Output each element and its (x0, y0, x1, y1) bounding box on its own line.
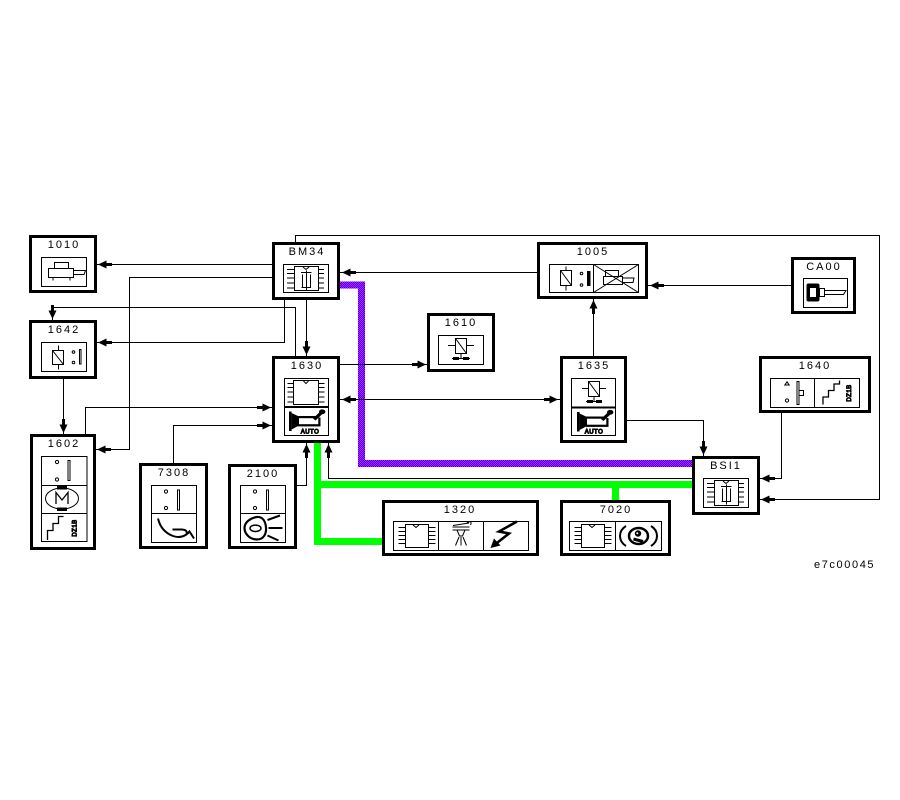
arrow into 1630 bottom right (325, 444, 333, 458)
wire BM34 to 1630 (306, 299, 308, 356)
box 1635 (562, 358, 626, 442)
svg-text:AUTO: AUTO (301, 430, 320, 436)
wire 7308 to 1630 (174, 426, 273, 464)
svg-text:DZ1B: DZ1B (847, 384, 853, 401)
arrow into 1630 bottom left (303, 444, 311, 458)
svg-text:1602: 1602 (48, 438, 80, 450)
svg-text:BSI1: BSI1 (710, 460, 742, 472)
wire BSI1 to 1630 (329, 443, 693, 479)
icon 1005 relay and crossed starter (550, 265, 639, 293)
arrow into 1010 right (98, 261, 112, 269)
green wire drop to 7020 (612, 486, 619, 500)
arrow into BSI1 right lower (761, 496, 775, 504)
wire BM34 to 1602 (96, 278, 272, 450)
wire 1635 to 1005 (593, 299, 595, 356)
arrow into BM34 right (342, 269, 356, 277)
icon CA00 ignition key (804, 279, 848, 308)
icon BSI1 fuse unit (704, 479, 749, 508)
arrow into 1630 top (303, 341, 311, 355)
icon 1320 ecu injection spark (394, 522, 529, 551)
box 1320 (384, 502, 538, 555)
box 1010 (31, 237, 96, 292)
wire 1642 to 1602 (63, 379, 65, 434)
box 7308 (141, 465, 207, 548)
box 1630 (274, 358, 339, 442)
svg-text:DZ1B: DZ1B (73, 519, 79, 536)
svg-text:AUTO: AUTO (585, 430, 604, 436)
green wire bus to BSI1 (314, 481, 692, 488)
icon 1630 ecu and horn (285, 379, 329, 436)
wire 1630 to 1635 bidirectional (340, 399, 560, 401)
wire 1635 to BSI1 top (627, 421, 704, 457)
box 1642 (31, 322, 96, 378)
arrow into 1610 left (412, 361, 426, 369)
arrow into 1005 bottom (590, 300, 598, 314)
wire 1602 to 1630 (86, 408, 273, 435)
wire BM34 to 1642 (97, 299, 285, 343)
icon 1010 starter motor (42, 258, 87, 287)
box 7020 (562, 502, 670, 555)
arrow into 1005 right (650, 282, 664, 290)
box 1610 (429, 315, 494, 371)
green wire 1630 to 1320 (318, 443, 383, 542)
arrow into 1630 left upper (257, 404, 271, 412)
arrow into 1602 top (60, 419, 68, 433)
box 1640 (761, 358, 870, 412)
box 1005 (539, 244, 647, 298)
wire BM34 to 1010 (97, 264, 272, 266)
arrow into 1602 right (97, 446, 111, 454)
wire 1630 to 1642 top (53, 308, 296, 357)
svg-text:1005: 1005 (577, 246, 609, 258)
wire 1640 to BSI1 (760, 413, 782, 479)
arrow into 1630 left lower (257, 422, 271, 430)
icon 7020 ecu and transponder (570, 522, 662, 551)
svg-text:BM34: BM34 (289, 246, 326, 258)
svg-text:1642: 1642 (48, 324, 80, 336)
box BM34 (274, 244, 339, 299)
icon 1602 switch motor stairs (42, 457, 88, 542)
svg-text:1610: 1610 (445, 317, 477, 329)
icon 1610 relay with ground (439, 336, 484, 365)
svg-text:1635: 1635 (578, 360, 610, 372)
box CA00 (793, 259, 855, 313)
icon 1640 switch and stairs (771, 379, 860, 408)
box BSI1 (694, 458, 759, 514)
svg-text:2100: 2100 (247, 468, 279, 480)
svg-text:1630: 1630 (291, 360, 323, 372)
arrow into 1642 right (98, 339, 112, 347)
svg-text:7020: 7020 (600, 504, 632, 516)
arrow into BSI1 top (700, 441, 708, 455)
svg-text:1010: 1010 (48, 239, 80, 251)
icon 1642 relay and switch (42, 343, 87, 372)
wire CA00 to 1005 (648, 285, 791, 287)
svg-text:CA00: CA00 (806, 261, 842, 273)
svg-text:e7c00045: e7c00045 (814, 559, 875, 571)
icon 2100 switch and headlamp (241, 486, 286, 543)
box 2100 (230, 466, 296, 548)
box 1602 (32, 436, 95, 549)
wire 1005 to BM34 (340, 272, 537, 274)
svg-text:7308: 7308 (158, 467, 190, 479)
icon 1635 relay ground and horn (572, 379, 616, 436)
wire 1630 to 1610 (340, 364, 427, 366)
arrow into 1635 left (544, 396, 558, 404)
wire 2100 to 1630 (297, 443, 307, 486)
purple wire BM34 to BSI1 (340, 285, 692, 464)
arrow into 1642 top (49, 305, 57, 319)
svg-text:1640: 1640 (799, 360, 831, 372)
svg-text:1320: 1320 (444, 504, 476, 516)
arrow into 1630 right (342, 396, 356, 404)
icon BM34 fuse unit (284, 265, 329, 293)
wire BM34 top to right bus to BSI1 (296, 236, 880, 500)
icon 7308 switch and lever (152, 486, 197, 543)
arrow into BSI1 right upper (761, 475, 775, 483)
